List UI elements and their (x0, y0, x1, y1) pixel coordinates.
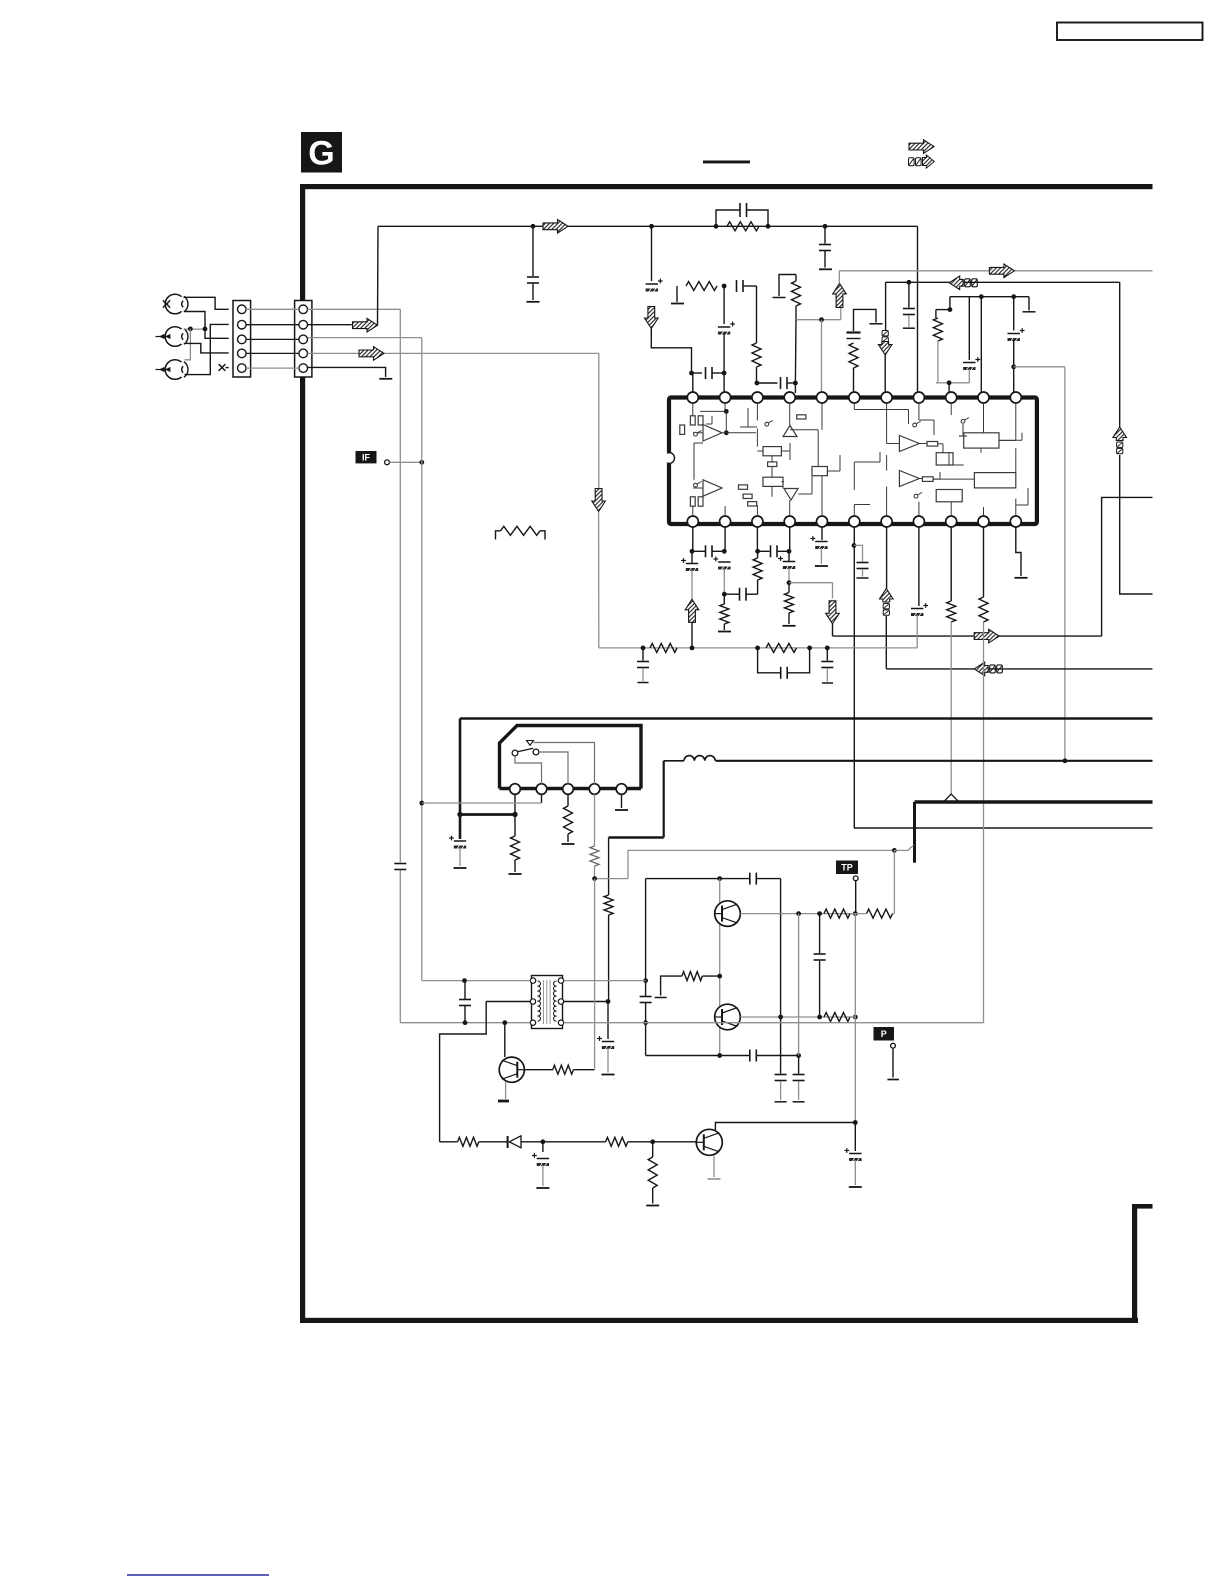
svg-text:G: G (308, 134, 334, 172)
svg-text:TP: TP (841, 862, 853, 872)
svg-text:P: P (881, 1029, 887, 1039)
svg-text:IF: IF (362, 452, 371, 462)
